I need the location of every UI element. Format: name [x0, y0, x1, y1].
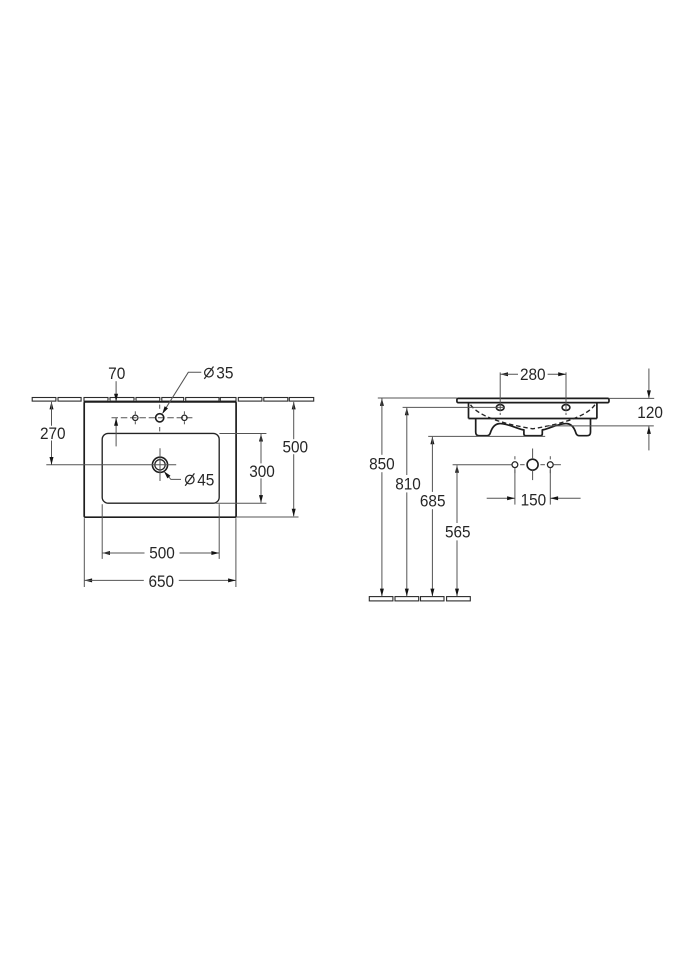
right mounting hole centerline — [565, 372, 567, 415]
650 extension lines — [84, 518, 236, 587]
inner bowl outline — [102, 433, 219, 503]
svg-text:810: 810 — [395, 474, 421, 493]
dimension 150 lines — [487, 496, 581, 500]
685 extension line — [428, 435, 545, 437]
right supply hole — [547, 456, 553, 473]
sculpted underside profile with legs and drain box — [476, 419, 591, 436]
svg-text:500: 500 — [149, 544, 175, 563]
svg-text:70: 70 — [108, 364, 125, 383]
svg-text:300: 300 — [249, 462, 275, 481]
dimension 565 lines — [455, 465, 459, 597]
300 bottom extension line — [216, 502, 267, 504]
850 extension line — [378, 397, 457, 399]
drain crosshair vertical — [159, 448, 161, 481]
565 extension line — [453, 464, 513, 466]
center tap hole vertical centerline — [159, 405, 161, 432]
dimension 280 lines — [500, 372, 566, 376]
svg-text:150: 150 — [521, 491, 547, 510]
drain hole (double circle) — [152, 457, 167, 472]
left mounting hole — [496, 405, 504, 411]
500 bottom extension lines — [102, 504, 219, 559]
dimension 70 lines — [114, 381, 118, 446]
120 top extension line — [609, 397, 654, 399]
supply centerline dashes — [520, 464, 561, 466]
dimension 500 right lines — [292, 402, 296, 517]
leader line Ø45 — [164, 471, 181, 479]
center tap hole — [156, 414, 164, 422]
150 extension lines — [515, 468, 550, 505]
dimension 300 lines — [259, 434, 263, 503]
dimension 685 lines — [430, 437, 434, 597]
dimension 120 lines — [647, 369, 651, 451]
svg-text:280: 280 — [520, 365, 546, 384]
svg-text:45: 45 — [197, 471, 214, 490]
wall hatch line (top view) — [32, 398, 313, 402]
leader line Ø35 — [162, 372, 201, 414]
svg-text:650: 650 — [149, 572, 175, 591]
dimension 810 lines — [405, 408, 409, 597]
countertop slab (front view) — [457, 398, 609, 402]
washbasin outer outline (top view) — [84, 402, 236, 517]
drain crosshair horizontal / 270 extension line — [46, 464, 176, 466]
dimension 650 lines — [84, 578, 236, 582]
810 extension line — [403, 406, 505, 408]
dimension 500 bottom lines — [102, 551, 219, 555]
dimension 270 lines — [50, 402, 54, 465]
supply center vertical centerline — [532, 449, 534, 481]
300 top extension line — [219, 433, 266, 435]
floor hatch line — [369, 597, 470, 601]
svg-text:685: 685 — [420, 491, 446, 510]
basin bottom edge extension — [236, 516, 298, 518]
left supply hole — [512, 456, 518, 473]
label Ø35 — [204, 364, 233, 383]
right tap hole — [182, 411, 187, 424]
120 bottom extension line — [546, 425, 654, 427]
left mounting hole centerline — [499, 372, 501, 415]
svg-text:850: 850 — [369, 455, 395, 474]
label Ø45 — [185, 471, 214, 490]
svg-text:120: 120 — [637, 403, 663, 422]
supply pipe center circle — [527, 459, 538, 470]
svg-text:565: 565 — [445, 522, 471, 541]
svg-text:270: 270 — [40, 424, 66, 443]
left tap hole — [133, 411, 138, 424]
svg-text:35: 35 — [216, 364, 233, 383]
tap hole centerline (dashed) — [112, 417, 195, 419]
right mounting hole — [562, 405, 570, 411]
basin body sides and back bottom edge (front view) — [469, 403, 597, 419]
svg-text:500: 500 — [283, 438, 309, 457]
hidden bowl contour (dashed) — [471, 405, 595, 429]
dimension 850 lines — [380, 398, 384, 596]
